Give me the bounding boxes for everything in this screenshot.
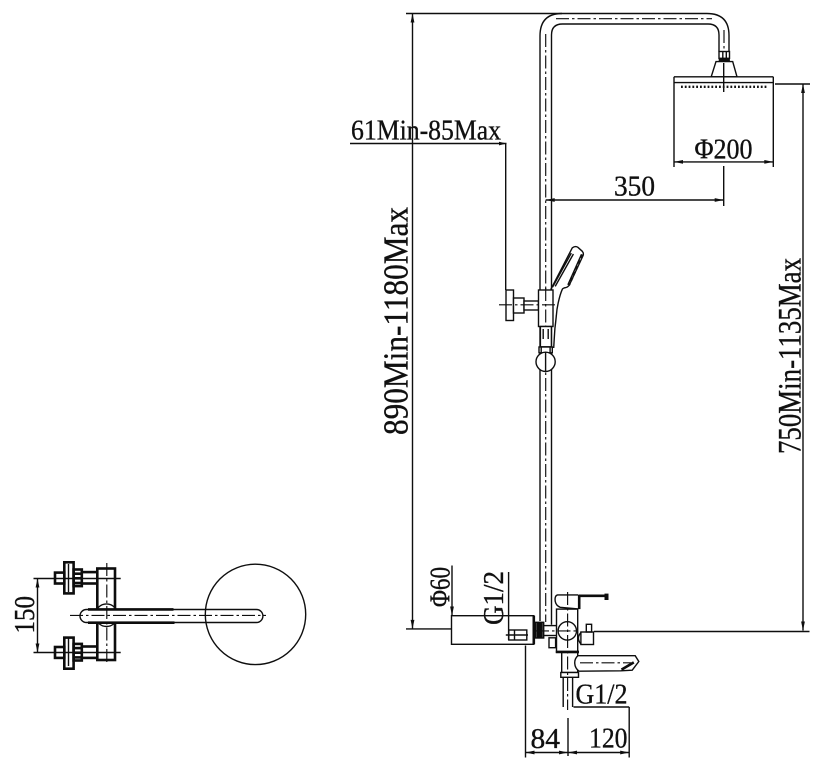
svg-text:G1/2: G1/2 (478, 571, 510, 625)
wire: riser pipe outer edge with top bends (540, 14, 729, 622)
small square below inlet (549, 638, 556, 648)
body plate plan (97, 569, 115, 661)
svg-text:84: 84 (531, 723, 561, 755)
svg-text:G1/2: G1/2 (576, 679, 628, 711)
spout centerline (580, 662, 631, 664)
valve inlet centerline (536, 630, 579, 632)
D60 extension with arrow (450, 566, 454, 616)
spout thick edges plan (88, 609, 175, 622)
extension line mid for 84/120 (567, 718, 569, 756)
top inlet flange (64, 562, 73, 593)
ball joint (536, 352, 555, 371)
valve lower neck (562, 652, 578, 672)
bracket arm narrow segment (524, 301, 539, 310)
dimension 84 and 120 line (526, 751, 630, 755)
G1/2 lower underline (574, 706, 630, 708)
wall escutcheon cylinder (452, 616, 534, 645)
valve knob circle (558, 622, 576, 640)
bottom inlet ribbed nut (74, 644, 82, 661)
wire: riser pipe inner edge (552, 24, 720, 625)
hand shower lower grip on pipe (540, 327, 551, 347)
bottom inlet centerline (34, 652, 121, 654)
collar above ball (539, 347, 552, 353)
rain head circle plan (205, 564, 305, 664)
hand shower body (551, 247, 584, 348)
tub spout (575, 656, 639, 672)
shower head top plate (674, 77, 773, 83)
head side right (772, 77, 774, 167)
pipe centerline vertical (545, 34, 547, 622)
svg-text:120: 120 (589, 723, 628, 755)
SECTION: dimensions (350, 14, 810, 758)
valve vertical centerline (567, 592, 569, 710)
slider block on pipe (539, 290, 554, 327)
diverter body (578, 632, 593, 645)
valve handle dome (555, 595, 578, 609)
head centerline upper (723, 63, 725, 92)
valve circle plan (95, 604, 118, 627)
reference line at valve center left (406, 628, 452, 630)
G1/2 upper leader line (508, 572, 510, 640)
arm capsule plan (80, 610, 263, 623)
capsule centerline (70, 614, 266, 616)
escutcheon thick right edge (532, 616, 535, 645)
extension line from holder to leader (505, 144, 507, 291)
bottom inlet flange (64, 638, 73, 669)
svg-text:890Min-1180Max: 890Min-1180Max (377, 207, 416, 435)
inlet tube to valve (544, 626, 557, 636)
svg-text:150: 150 (9, 596, 41, 634)
svg-text:350: 350 (614, 171, 655, 203)
head side left (673, 77, 675, 167)
bottom inlet tube (82, 647, 98, 658)
leader 61Min-85Max underline (350, 142, 507, 146)
diverter knob stem (586, 624, 591, 632)
hose outlet tube (563, 677, 572, 707)
svg-text:Φ200: Φ200 (695, 134, 753, 166)
bracket arm wide segment (514, 298, 525, 313)
hand shower holder bracket wall plate (506, 290, 514, 321)
washer band (filled) (719, 59, 730, 62)
hose outlet cap (561, 673, 579, 678)
valve body joint thick line (556, 651, 579, 654)
head center extension for 350 (723, 166, 725, 206)
extension line right for 120 (628, 707, 630, 758)
nut on shower arm (719, 52, 730, 59)
nozzle dotted row (681, 86, 767, 88)
SECTION: main front view (452, 14, 774, 711)
dimension 750Min-1135Max (594, 84, 810, 632)
top inlet tube (82, 572, 98, 583)
dimension D200 (674, 160, 773, 164)
mounting cone of head (711, 62, 737, 77)
dimension 350 (546, 198, 724, 202)
bottom inlet wall square (55, 647, 64, 658)
pipe centerline horizontal (556, 18, 712, 20)
hex nut at wall inlet (535, 622, 543, 638)
svg-text:61Min-85Max: 61Min-85Max (351, 115, 501, 147)
top inlet ribbed nut (74, 570, 82, 587)
extension line left for 84 (525, 646, 527, 758)
SECTION: plan view (9, 562, 306, 668)
G1/2 nipple in escutcheon (506, 630, 528, 640)
body plate centerline (106, 563, 108, 664)
svg-text:750Min-1135Max: 750Min-1135Max (773, 258, 809, 454)
valve body (557, 609, 578, 652)
dimension 150 (36, 579, 40, 653)
bottom inlet vertical centerline (68, 638, 70, 666)
valve handle lever (579, 594, 609, 610)
bracket centerline (499, 304, 556, 306)
top inlet vertical centerline (68, 564, 70, 592)
top inlet centerline (34, 578, 121, 580)
dimension 890Min-1180Max line (406, 14, 562, 629)
top inlet wall square (55, 573, 64, 584)
ball centerline (545, 353, 547, 372)
pipe centerline head drop (723, 30, 725, 51)
